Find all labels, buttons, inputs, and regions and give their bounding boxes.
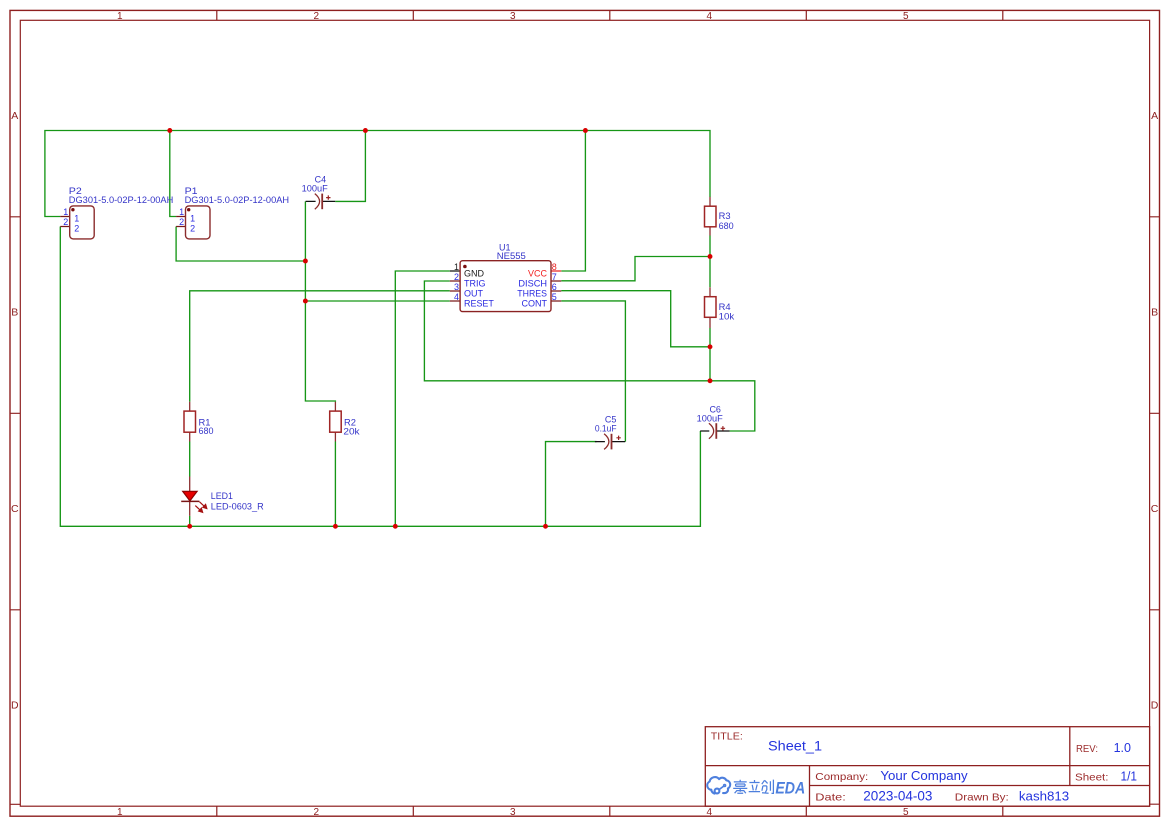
svg-text:D: D xyxy=(11,699,19,711)
svg-text:TRIG: TRIG xyxy=(464,279,486,289)
svg-text:3: 3 xyxy=(510,11,516,22)
svg-text:6: 6 xyxy=(552,282,557,292)
svg-text:Company:: Company: xyxy=(815,771,868,783)
svg-text:2: 2 xyxy=(314,807,320,818)
svg-text:R4: R4 xyxy=(719,302,731,312)
svg-text:1: 1 xyxy=(179,207,184,217)
svg-text:THRES: THRES xyxy=(517,289,547,299)
svg-text:A: A xyxy=(1151,110,1158,122)
svg-text:REV:: REV: xyxy=(1076,744,1098,755)
svg-text:LED1: LED1 xyxy=(211,491,233,501)
svg-text:1: 1 xyxy=(117,11,123,22)
svg-text:VCC: VCC xyxy=(528,269,548,279)
svg-text:CONT: CONT xyxy=(522,299,548,309)
svg-text:1: 1 xyxy=(74,213,79,223)
svg-text:Your Company: Your Company xyxy=(880,768,968,783)
svg-text:100uF: 100uF xyxy=(302,183,329,193)
svg-text:Sheet:: Sheet: xyxy=(1075,772,1109,784)
svg-text:3: 3 xyxy=(454,282,459,292)
svg-text:0.1uF: 0.1uF xyxy=(595,424,617,434)
svg-text:Date:: Date: xyxy=(815,791,846,803)
svg-text:A: A xyxy=(11,110,18,122)
svg-text:GND: GND xyxy=(464,269,485,279)
svg-text:10k: 10k xyxy=(719,312,735,322)
svg-text:1.0: 1.0 xyxy=(1114,740,1131,755)
svg-text:DG301-5.0-02P-12-00AH: DG301-5.0-02P-12-00AH xyxy=(185,195,290,205)
svg-text:680: 680 xyxy=(719,221,734,231)
svg-text:D: D xyxy=(1151,699,1159,711)
svg-text:2: 2 xyxy=(74,223,79,233)
svg-text:2: 2 xyxy=(454,272,459,282)
svg-text:NE555: NE555 xyxy=(497,251,526,261)
svg-text:1: 1 xyxy=(117,807,123,818)
svg-text:4: 4 xyxy=(707,807,713,818)
svg-text:2: 2 xyxy=(314,11,320,22)
svg-text:C: C xyxy=(1151,503,1159,515)
svg-text:2: 2 xyxy=(63,217,68,227)
svg-text:680: 680 xyxy=(199,426,214,436)
svg-text:1/1: 1/1 xyxy=(1121,769,1138,784)
svg-text:2: 2 xyxy=(190,223,195,233)
svg-text:1: 1 xyxy=(190,213,195,223)
svg-text:kash813: kash813 xyxy=(1019,788,1069,803)
svg-text:5: 5 xyxy=(903,11,909,22)
svg-text:7: 7 xyxy=(552,272,557,282)
svg-text:5: 5 xyxy=(552,292,557,302)
svg-text:8: 8 xyxy=(552,262,557,272)
svg-text:20k: 20k xyxy=(343,426,360,436)
svg-text:TITLE:: TITLE: xyxy=(711,732,743,743)
svg-text:2023-04-03: 2023-04-03 xyxy=(863,788,932,803)
svg-text:4: 4 xyxy=(454,292,459,302)
svg-text:B: B xyxy=(11,306,18,318)
svg-text:EDA: EDA xyxy=(775,779,805,797)
svg-text:RESET: RESET xyxy=(464,299,494,309)
svg-text:1: 1 xyxy=(454,262,459,272)
svg-text:2: 2 xyxy=(179,217,184,227)
svg-text:R3: R3 xyxy=(719,211,731,221)
svg-text:4: 4 xyxy=(707,11,713,22)
svg-text:5: 5 xyxy=(903,807,909,818)
svg-text:3: 3 xyxy=(510,807,516,818)
svg-text:C: C xyxy=(11,503,19,515)
svg-text:Drawn By:: Drawn By: xyxy=(955,791,1009,803)
svg-text:1: 1 xyxy=(63,207,68,217)
svg-text:DG301-5.0-02P-12-00AH: DG301-5.0-02P-12-00AH xyxy=(69,195,173,205)
svg-text:OUT: OUT xyxy=(464,289,484,299)
svg-text:100uF: 100uF xyxy=(697,414,724,424)
svg-text:DISCH: DISCH xyxy=(518,279,547,289)
svg-text:LED-0603_R: LED-0603_R xyxy=(211,501,264,511)
svg-text:B: B xyxy=(1151,306,1158,318)
svg-text:Sheet_1: Sheet_1 xyxy=(768,739,822,754)
